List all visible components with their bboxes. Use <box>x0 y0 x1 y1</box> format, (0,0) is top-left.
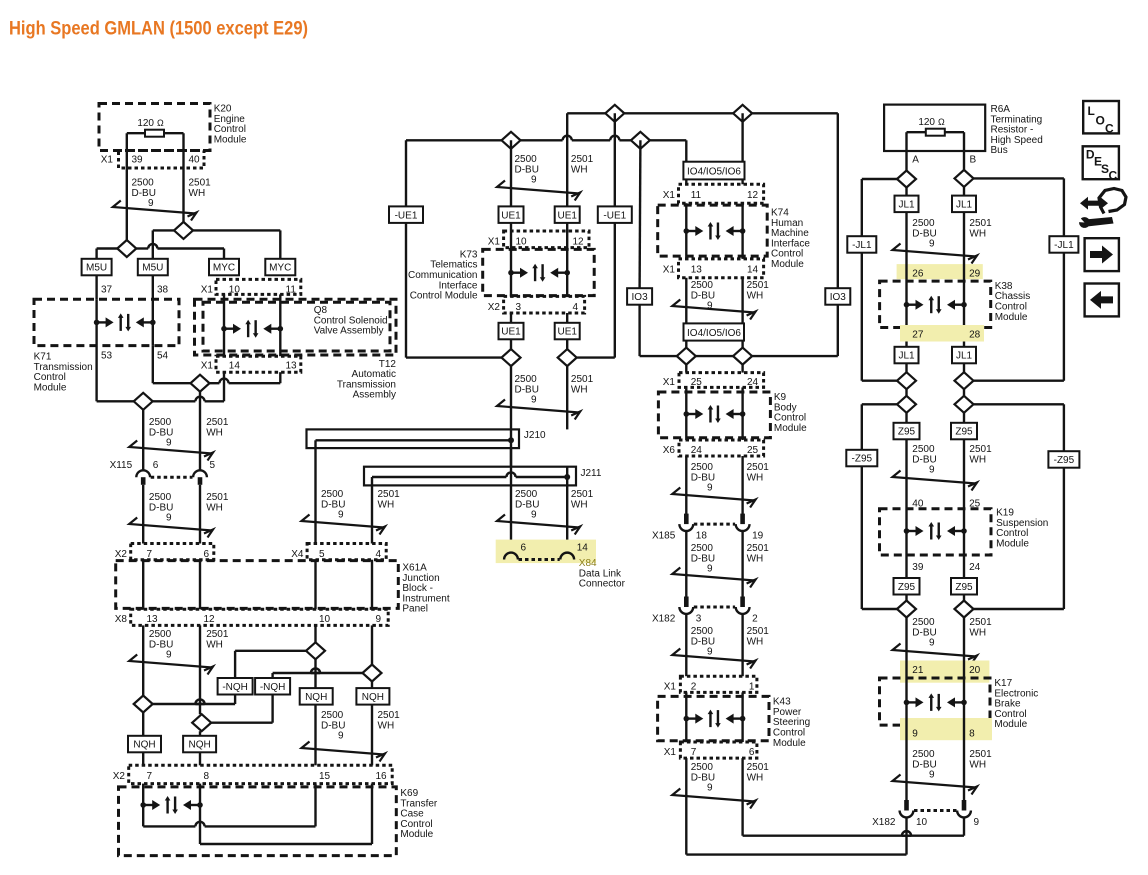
option box -UE1 2 <box>598 206 632 223</box>
svg-text:5: 5 <box>319 549 325 560</box>
label wire 2500 D-BU 9 <box>132 178 156 210</box>
svg-text:4: 4 <box>376 549 382 560</box>
corner wire 2500 line down to -UE1 box 1 <box>405 140 407 206</box>
svg-text:9: 9 <box>912 729 918 740</box>
wire M5U1 to K71 pin 37 <box>95 275 97 299</box>
svg-text:14: 14 <box>577 543 589 554</box>
option box -JL1 right <box>1049 236 1078 253</box>
CAN node symbol in K17 <box>904 693 967 711</box>
module K69 Transfer Case Control Module box <box>119 787 397 856</box>
svg-text:-Z95: -Z95 <box>1054 455 1075 466</box>
wires through X61A <box>143 560 372 610</box>
option box Z95 right bottom <box>951 578 977 595</box>
svg-text:JL1: JL1 <box>898 199 915 210</box>
wire 2501 into K38 <box>963 264 965 347</box>
label K20 Engine Control Module <box>214 104 247 146</box>
svg-text:7: 7 <box>691 747 697 758</box>
option box NQH 5 <box>128 736 161 753</box>
wire J210 to X61A X4-5 <box>314 448 316 543</box>
label wire 2501 WH below K43 <box>747 762 770 783</box>
svg-text:WH: WH <box>969 228 986 239</box>
module K9 Body Control Module box <box>658 392 770 438</box>
twisted pair below X115 <box>129 518 213 538</box>
splice J210 <box>307 429 547 448</box>
junction diamond K73 output 2500 <box>502 349 521 366</box>
icon wiring navigation wrench with arrows <box>1077 189 1126 228</box>
svg-text:-JL1: -JL1 <box>1054 240 1074 251</box>
pin 29 K38 <box>969 269 981 280</box>
twisted pair below K9 <box>672 488 755 508</box>
icon button arrow left <box>1085 284 1119 317</box>
twisted pair below K73 <box>497 400 580 420</box>
wire JL1 to diamonds right <box>963 363 965 396</box>
svg-text:27: 27 <box>912 329 924 340</box>
connector X1 top of Q8 <box>201 279 301 295</box>
svg-text:UE1: UE1 <box>501 327 521 338</box>
label wire 2501 WH above K69 <box>378 710 401 731</box>
wire JL1 to diamonds left <box>905 363 907 396</box>
svg-text:18: 18 <box>696 531 708 542</box>
svg-text:Panel: Panel <box>402 604 428 615</box>
bypass rail -UE1 2 down to K73 output <box>577 223 615 358</box>
label wire 2500 D-BU 9 below X8 <box>149 629 173 661</box>
highlight K38 pins 26 29 <box>897 264 983 279</box>
svg-text:13: 13 <box>691 265 703 276</box>
wire J211 to X61A X4-4 <box>371 485 373 543</box>
connector X2 of K73 <box>488 296 585 313</box>
svg-text:IO3: IO3 <box>632 292 649 303</box>
junction diamond on wire 10 <box>306 642 325 659</box>
svg-text:Module: Module <box>994 719 1027 730</box>
svg-text:11: 11 <box>286 285 297 296</box>
svg-text:6: 6 <box>749 747 755 758</box>
wire X182-9 to K43 2501 with hop <box>743 817 964 835</box>
option box NQH 3 <box>300 688 333 705</box>
label wire 2501 WH above X84 <box>571 489 594 510</box>
svg-text:Z95: Z95 <box>898 427 916 438</box>
svg-text:WH: WH <box>747 772 764 783</box>
svg-text:X1: X1 <box>201 285 214 296</box>
wire 2501 to Q8 pin 13 with hop <box>210 372 281 383</box>
svg-text:WH: WH <box>378 499 395 510</box>
option box JL1 left top <box>895 188 919 265</box>
module K17 Electronic Brake Control Module box <box>880 678 991 725</box>
svg-text:X1: X1 <box>664 682 677 693</box>
CAN node symbol in K73 <box>508 264 570 282</box>
wire Z95 into K19 right <box>963 439 965 508</box>
splice J211 <box>364 467 602 486</box>
svg-text:JL1: JL1 <box>898 351 915 362</box>
connector X2 of X61A <box>115 544 214 561</box>
label wire 2500 D-BU 9 below K73 <box>515 374 539 406</box>
assembly T12 outer dashed box <box>195 299 397 355</box>
svg-text:WH: WH <box>969 627 986 638</box>
option box JL1 right bottom <box>952 347 976 364</box>
wire X8-10 down <box>314 625 316 642</box>
wire 2501 X115 to X61A <box>199 485 201 544</box>
svg-text:9: 9 <box>707 647 713 658</box>
svg-text:-UE1: -UE1 <box>603 210 626 221</box>
svg-text:9: 9 <box>929 465 935 476</box>
CAN node symbol in Q8 <box>221 294 283 356</box>
wire Z95 into K19 left <box>905 439 907 508</box>
svg-text:WH: WH <box>747 553 764 564</box>
twisted pair above UE1 <box>497 181 580 201</box>
junction diamond second line at K73 <box>502 132 521 149</box>
wire into K17 left <box>905 648 907 702</box>
wire UE1 4 to diamond <box>566 340 568 350</box>
svg-text:J210: J210 <box>524 430 546 441</box>
bus line 2501 WH top horizontal <box>567 112 838 114</box>
label wire 2501 WH below X115 <box>206 492 229 513</box>
svg-text:X6: X6 <box>663 445 676 456</box>
wire branch to M5U right <box>153 230 174 259</box>
icon button LOC <box>1083 101 1119 136</box>
module K74 Human Machine Interface Control Module box <box>658 205 768 256</box>
option box UE1 4 <box>555 323 580 340</box>
svg-text:Ω: Ω <box>157 118 164 128</box>
svg-text:13: 13 <box>286 361 298 372</box>
svg-text:9: 9 <box>338 731 344 742</box>
svg-text:24: 24 <box>691 445 703 456</box>
wire UE1 1 to K73 X1-10 <box>510 223 512 296</box>
label wire 2500 D-BU 9 below X115 <box>149 492 173 524</box>
svg-text:Assembly: Assembly <box>353 390 396 401</box>
label K9 Body Control Module <box>774 392 807 434</box>
label wire 2500 D-BU 9 below X182 <box>691 626 715 658</box>
svg-text:9: 9 <box>166 438 172 449</box>
option box IO4/IO5/IO6 top <box>683 162 744 180</box>
twisted pair below X182 <box>672 649 755 669</box>
svg-text:Module: Module <box>34 382 67 393</box>
icon button arrow right <box>1085 238 1119 271</box>
label wire 2501 WH above UE1 <box>571 154 594 175</box>
option box NQH 6 <box>183 736 216 753</box>
label wire 2501 WH below K17 <box>969 749 992 770</box>
CAN node symbol in K69 <box>140 784 202 814</box>
wire UE1 2 to K73 X1-12 <box>566 223 568 296</box>
module K71 Transmission Control Module box <box>34 299 179 345</box>
twisted pair above K38 <box>893 244 978 264</box>
option box Z95 left top <box>894 423 920 440</box>
wire 2500 down from diamond <box>142 410 144 471</box>
wire K19 to Z95 bottom right <box>963 555 965 578</box>
option box -JL1 left <box>847 236 876 253</box>
svg-text:Valve Assembly: Valve Assembly <box>314 326 384 337</box>
connector X1 bottom of K43 <box>664 742 757 758</box>
svg-text:MYC: MYC <box>213 263 235 274</box>
svg-text:IO4/IO5/IO6: IO4/IO5/IO6 <box>687 328 741 339</box>
highlight K38 pins 27 28 <box>900 325 984 342</box>
svg-text:NQH: NQH <box>188 740 210 751</box>
module K20 Engine Control Module box <box>99 104 210 151</box>
svg-text:21: 21 <box>912 665 924 676</box>
wire K19 to Z95 bottom left <box>905 555 907 578</box>
module R6A Terminating Resistor box <box>884 105 985 151</box>
svg-text:WH: WH <box>206 427 223 438</box>
svg-text:A: A <box>912 155 919 166</box>
junction diamond 2501 rejoin Z95 <box>955 601 974 618</box>
junction diamond 2500 rejoin Z95 <box>897 601 916 618</box>
svg-text:Module: Module <box>771 259 804 270</box>
svg-text:X1: X1 <box>663 190 676 201</box>
svg-text:2: 2 <box>752 614 758 625</box>
wire 2501 from diamond into IO4 box <box>741 113 743 184</box>
module K38 Chassis Control Module box <box>880 281 991 327</box>
label T12 Automatic Transmission Assembly <box>337 359 397 401</box>
connector X1 of K9 <box>663 373 764 388</box>
CAN node symbol in K71 <box>94 299 156 345</box>
module Q8 dashed box <box>203 302 390 351</box>
svg-text:9: 9 <box>148 198 154 209</box>
svg-text:-UE1: -UE1 <box>395 210 418 221</box>
svg-text:X2: X2 <box>488 302 501 313</box>
wire into K17 right <box>963 648 965 702</box>
wire X8-12 down <box>199 625 201 714</box>
connector X1 top of K74 <box>663 184 764 203</box>
label wire 2500 D-BU 9 above X115 <box>149 417 173 449</box>
wires IO4 box to diamonds <box>686 341 742 373</box>
svg-text:24: 24 <box>969 562 981 573</box>
svg-text:28: 28 <box>969 329 981 340</box>
svg-text:37: 37 <box>101 285 113 296</box>
svg-text:X182: X182 <box>652 614 676 625</box>
label wire 2501 WH above K19 <box>969 444 992 465</box>
wire NQH5 to K69 pin 7 <box>142 753 144 766</box>
twisted pair above K19 <box>893 471 978 491</box>
wire diamond to Z95 left <box>905 413 907 423</box>
wire 2501 WH from K20 pin 40 <box>182 133 184 222</box>
wire NQH6 to K69 pin 8 <box>199 753 201 766</box>
wire 2500 D-BU from K20 pin 39 <box>126 133 128 240</box>
inline connector X182 pins 10 and 9 <box>872 800 979 828</box>
svg-text:J211: J211 <box>581 468 602 479</box>
wire X8-9 down <box>371 625 373 664</box>
svg-text:10: 10 <box>319 614 331 625</box>
svg-text:9: 9 <box>707 483 713 494</box>
svg-text:WH: WH <box>969 454 986 465</box>
label K43 Power Steering Control Module <box>773 697 810 749</box>
label K17 Electronic Brake Control Module <box>994 678 1038 730</box>
junction diamond 2500 branch -Z95 <box>897 396 916 413</box>
label wire 2501 WH below K73 <box>571 374 594 395</box>
wire 2500 to Q8 pin 14 with hop <box>153 372 224 401</box>
CAN node symbol in K43 <box>684 692 746 742</box>
twisted pair symbol K20 wires <box>113 201 197 221</box>
svg-text:13: 13 <box>147 614 159 625</box>
connector X1 top of K43 <box>664 676 757 692</box>
svg-text:53: 53 <box>101 351 113 362</box>
svg-text:29: 29 <box>969 269 981 280</box>
svg-text:JL1: JL1 <box>956 199 973 210</box>
svg-text:15: 15 <box>319 771 331 782</box>
svg-text:7: 7 <box>147 549 153 560</box>
bypass rail -Z95 left down <box>862 466 897 609</box>
wire K73 X2-3 to UE1 3 <box>510 313 512 323</box>
junction diamond K73 output 2501 <box>558 349 577 366</box>
svg-text:9: 9 <box>531 175 537 186</box>
option box MYC 2 <box>265 259 295 276</box>
inline connector X182 pins 3 and 2 <box>652 597 758 625</box>
svg-text:25: 25 <box>747 445 759 456</box>
junction diamond 2501 rejoin JL1 <box>955 372 974 389</box>
bypass rail -Z95 right down <box>974 468 1064 609</box>
svg-text:X1: X1 <box>663 377 676 388</box>
pin 8 K17 <box>969 729 975 740</box>
svg-text:12: 12 <box>204 614 216 625</box>
CAN node symbol in K9 <box>684 387 746 440</box>
junction block X61A dashed box <box>116 561 399 609</box>
twisted pair below X8 <box>129 655 213 675</box>
svg-text:JL1: JL1 <box>956 351 973 362</box>
bypass wire to -NQH 1 <box>235 651 306 678</box>
svg-text:X2: X2 <box>115 549 128 560</box>
svg-text:14: 14 <box>229 361 241 372</box>
label wire 2500 D-BU 9 above K19 <box>912 444 936 476</box>
svg-text:Bus: Bus <box>991 145 1008 156</box>
CAN node symbol in K74 <box>684 203 746 259</box>
svg-text:Module: Module <box>995 312 1028 323</box>
svg-text:X1: X1 <box>663 265 676 276</box>
svg-text:19: 19 <box>752 531 764 542</box>
option box M5U 1 <box>82 259 112 276</box>
svg-text:12: 12 <box>573 237 585 248</box>
svg-text:UE1: UE1 <box>557 210 577 221</box>
highlight K17 pins 9 8 <box>900 718 992 740</box>
svg-text:9: 9 <box>338 510 344 521</box>
module K19 Suspension Control Module box <box>880 509 992 555</box>
wire R6A pin B <box>964 132 977 170</box>
svg-text:Control Module: Control Module <box>410 291 478 302</box>
svg-text:WH: WH <box>189 188 206 199</box>
junction diamond 2501 branch -Z95 <box>955 396 974 413</box>
junction diamond on 2500 at T12 output <box>134 393 153 410</box>
CAN node symbol in K19 <box>904 509 967 555</box>
junction diamond pin A <box>897 171 916 188</box>
connector X4 of X61A <box>291 544 386 561</box>
highlight K17 pins 21 20 <box>900 661 989 683</box>
pin 20 K17 <box>969 665 981 676</box>
label K71 Transmission Control Module <box>34 352 93 394</box>
wire K71 pin 54 down <box>153 346 191 384</box>
wire NQH3 to K69 pin 15 <box>314 705 316 765</box>
svg-text:WH: WH <box>969 759 986 770</box>
bypass branch to -Z95 left <box>862 404 897 450</box>
wire Z95 to diamond left <box>905 595 907 649</box>
module K73 Telematics Communication Interface Control Module box <box>483 249 595 295</box>
pin 25 K19 <box>969 499 981 510</box>
svg-text:9: 9 <box>376 614 382 625</box>
wire 2500 J211 to X84 <box>510 485 512 552</box>
wire 2500 X115 to X61A <box>142 485 144 544</box>
label X61A Junction Block - Instrument Panel <box>402 563 449 615</box>
svg-text:6: 6 <box>521 543 527 554</box>
pin 28 K38 <box>969 329 981 340</box>
CAN node symbol in K38 <box>904 296 967 314</box>
junction diamond on 2500 left <box>134 696 153 713</box>
svg-text:9: 9 <box>707 783 713 794</box>
svg-text:9: 9 <box>166 513 172 524</box>
connector X1 of K20 <box>101 151 204 169</box>
svg-text:X8: X8 <box>115 614 128 625</box>
connector X1 bottom of Q8 <box>201 356 301 372</box>
svg-text:NQH: NQH <box>362 692 384 703</box>
wires K9 X6 down to X185 <box>686 456 742 515</box>
svg-text:X4: X4 <box>291 549 304 560</box>
label wire 2500 D-BU 9 below X185 <box>691 543 715 575</box>
wire NQH4 to K69 pin 16 <box>371 705 373 765</box>
twisted pair above K69 <box>302 742 386 762</box>
label wire 2501 WH above X4 <box>378 489 401 510</box>
svg-text:NQH: NQH <box>133 740 155 751</box>
twisted pair above K17 <box>893 644 978 664</box>
svg-text:14: 14 <box>747 265 759 276</box>
label wire 2501 WH below X8 <box>206 629 229 650</box>
wire K17 down right <box>963 702 965 802</box>
option box IO3 left <box>627 140 652 356</box>
wire UE1 1 down from 2500 diamond <box>510 140 512 206</box>
svg-text:UE1: UE1 <box>557 327 577 338</box>
wire K74 X1-14 down <box>741 278 743 324</box>
svg-text:WH: WH <box>571 384 588 395</box>
connector X1 of K73 <box>488 231 589 248</box>
option box -Z95 right <box>1048 451 1079 468</box>
bus line 2500 D-BU second horizontal with hops <box>406 136 686 141</box>
option box -Z95 left <box>846 450 877 467</box>
option box UE1 2 <box>555 206 580 223</box>
bypass rail -UE1 1 down to K73 output <box>406 223 501 358</box>
wire diamond to NQH 4 <box>371 682 373 689</box>
junction diamond K9 input 2500 <box>677 348 696 365</box>
svg-text:MYC: MYC <box>269 263 291 274</box>
junction diamond on 2500 below K20 <box>117 240 136 257</box>
svg-text:3: 3 <box>516 302 522 313</box>
label wire 2500 D-BU 9 below K74 <box>691 280 715 312</box>
icon button DESC <box>1083 146 1119 182</box>
label wire 2500 D-BU 9 above K69 <box>321 710 345 742</box>
wire R6A pin A <box>907 132 920 170</box>
wire X8-13 down <box>142 625 144 695</box>
pin 21 K17 <box>912 665 924 676</box>
svg-text:X2: X2 <box>113 771 126 782</box>
svg-text:WH: WH <box>571 164 588 175</box>
junction diamond pin B <box>955 170 974 187</box>
svg-text:7: 7 <box>147 771 153 782</box>
option box MYC 1 <box>209 259 239 276</box>
wire 2501 to NQH 6 <box>199 731 201 736</box>
twisted pair above X4 <box>302 515 386 535</box>
svg-text:C: C <box>1105 122 1114 136</box>
label wire 2501 WH below K74 <box>747 280 770 301</box>
svg-text:IO4/IO5/IO6: IO4/IO5/IO6 <box>687 167 741 178</box>
svg-text:NQH: NQH <box>305 692 327 703</box>
bypass horizontal line IO3 to K9 wires <box>640 355 838 357</box>
junction diamond K9 input 2501 <box>733 348 752 365</box>
internal wire K69 pin 8 to pin 16 <box>200 784 372 844</box>
label X84 Data Link Connector <box>579 558 626 590</box>
connector X6 of K9 <box>663 440 764 456</box>
label K19 Suspension Control Module <box>996 508 1048 550</box>
svg-text:9: 9 <box>929 770 935 781</box>
svg-text:Ω: Ω <box>938 117 945 127</box>
bypass wire to -NQH 2 with hop <box>273 668 363 678</box>
pin 37 K71 <box>101 285 113 296</box>
svg-text:UE1: UE1 <box>501 210 521 221</box>
pin 26 K38 <box>912 269 924 280</box>
wire K71 pin 53 down <box>97 346 134 402</box>
label K74 Human Machine Interface Control Module <box>771 208 810 271</box>
svg-text:5: 5 <box>210 460 216 471</box>
